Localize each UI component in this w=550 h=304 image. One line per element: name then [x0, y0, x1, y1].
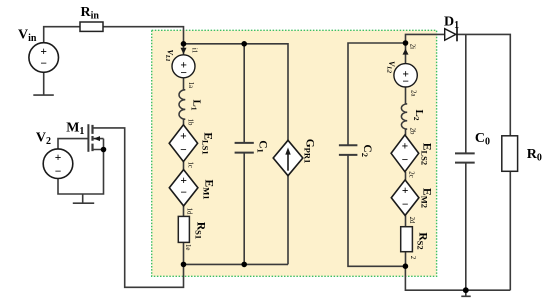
svg-text:−: − [180, 187, 187, 199]
svg-text:1a: 1a [187, 82, 194, 88]
svg-text:−: − [402, 76, 409, 88]
svg-text:1d: 1d [186, 208, 193, 215]
svg-text:2a: 2a [410, 90, 417, 96]
svg-text:−: − [402, 199, 409, 211]
svg-text:−: − [180, 68, 187, 80]
svg-text:+: + [180, 130, 187, 142]
svg-text:1b: 1b [187, 119, 194, 126]
svg-text:+: + [40, 46, 47, 58]
svg-text:+: + [180, 175, 187, 187]
svg-text:1e: 1e [184, 244, 191, 250]
svg-text:−: − [55, 166, 62, 178]
svg-text:2: 2 [409, 256, 416, 260]
svg-text:−: − [402, 155, 409, 167]
svg-text:+: + [55, 152, 62, 164]
svg-text:+: + [402, 141, 409, 153]
svg-text:2i: 2i [408, 44, 415, 49]
svg-text:−: − [40, 58, 47, 70]
svg-text:2b: 2b [409, 128, 416, 135]
svg-text:1c: 1c [187, 161, 194, 167]
svg-text:2c: 2c [408, 171, 415, 177]
svg-text:+: + [402, 185, 409, 197]
svg-text:2d: 2d [408, 217, 415, 224]
svg-text:−: − [180, 145, 187, 157]
svg-text:i1: i1 [191, 48, 198, 53]
